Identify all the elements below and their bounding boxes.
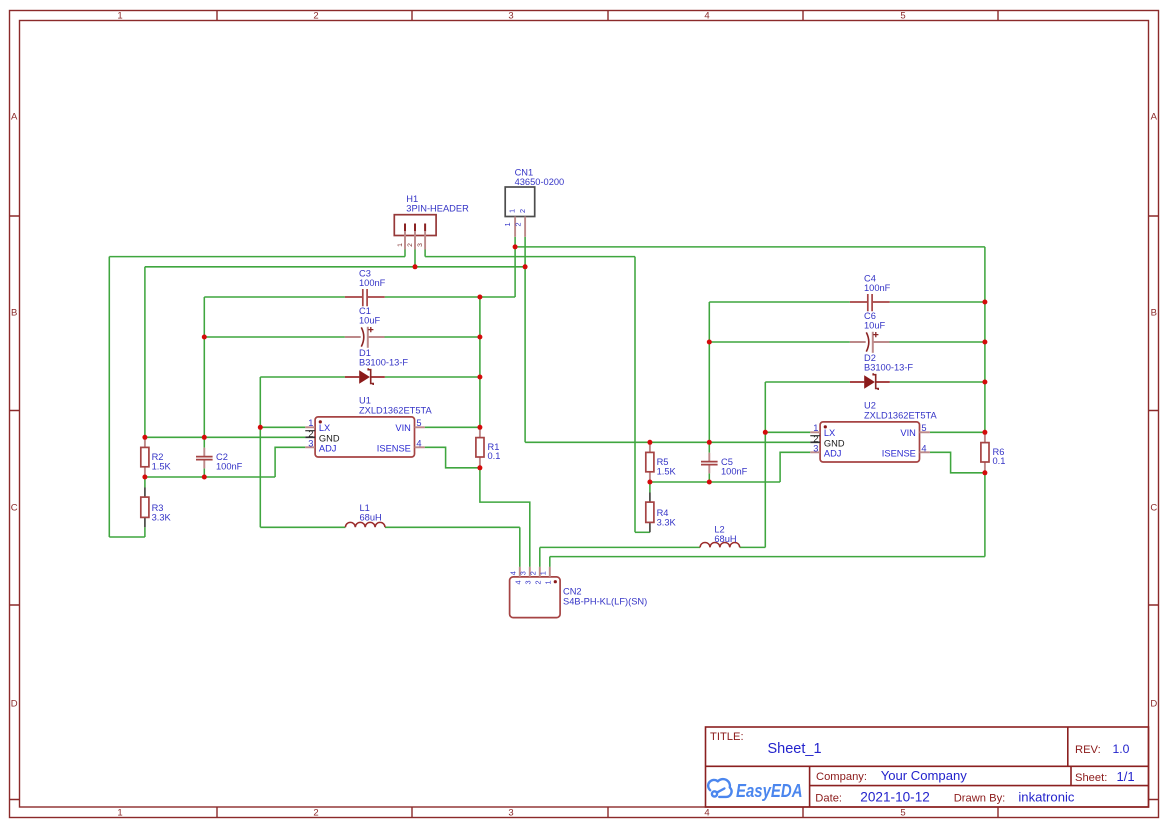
- svg-text:3: 3: [417, 243, 424, 247]
- junction D1 row R1 column: [477, 375, 482, 380]
- junction dots left half: [142, 244, 527, 479]
- svg-text:1: 1: [544, 580, 553, 584]
- svg-text:GND: GND: [824, 438, 845, 448]
- title block outline: [706, 727, 1149, 807]
- wire D1 row left: [260, 376, 345, 378]
- wire L2 row left: [540, 546, 700, 548]
- svg-text:U2: U2: [864, 401, 876, 411]
- svg-text:ISENSE: ISENSE: [882, 448, 916, 458]
- wire net B bottom to R3: [109, 536, 145, 538]
- U2 pin 4 line: [920, 451, 930, 453]
- frame row labels left: [11, 111, 18, 709]
- capacitor C2 plates: [196, 457, 213, 460]
- svg-text:3.3K: 3.3K: [152, 512, 172, 522]
- svg-text:C1: C1: [359, 306, 371, 316]
- wire LX right column: [764, 382, 766, 547]
- diode D1 cathode bar with schottky hooks: [368, 368, 373, 385]
- junction C4 row R6 column: [982, 300, 987, 305]
- op-amp U2 body: [820, 422, 919, 462]
- svg-text:D: D: [11, 698, 18, 709]
- svg-text:VIN: VIN: [395, 423, 411, 433]
- svg-text:100nF: 100nF: [721, 466, 748, 476]
- wire C2 column upper: [203, 297, 205, 448]
- svg-text:5: 5: [900, 11, 905, 22]
- frame row labels right: [1150, 111, 1157, 709]
- wire CN2 pin1 stub: [549, 557, 551, 567]
- wire VIN right to R6 top: [930, 431, 985, 433]
- junction LX right column pin1: [763, 430, 768, 435]
- svg-text:100nF: 100nF: [864, 283, 891, 293]
- svg-text:100nF: 100nF: [216, 461, 243, 471]
- title block logo cell divider: [809, 766, 811, 807]
- svg-text:10uF: 10uF: [359, 315, 381, 325]
- svg-text:B: B: [1151, 307, 1157, 318]
- wire CN1 pin1 vertical: [514, 237, 516, 297]
- U2 pin 1 line: [810, 431, 820, 433]
- svg-text:2: 2: [514, 222, 523, 226]
- capacitor C3 plates: [363, 289, 367, 306]
- junction VIN R6 top: [982, 430, 987, 435]
- junction R5 top: [647, 440, 652, 445]
- svg-text:Drawn By:: Drawn By:: [954, 792, 1006, 804]
- wire CN2 pin1 row: [550, 556, 985, 558]
- resistor R4 pin stubs: [649, 493, 651, 533]
- connector CN2 pin lines: [520, 567, 550, 577]
- resistor R1 pin stubs: [479, 427, 481, 468]
- svg-text:REV:: REV:: [1075, 744, 1101, 756]
- svg-text:ZXLD1362ET5TA: ZXLD1362ET5TA: [864, 411, 937, 421]
- svg-text:B3100-13-F: B3100-13-F: [864, 362, 913, 372]
- wire L2 row right: [740, 546, 766, 548]
- junction C2 bottom: [202, 475, 207, 480]
- wire C1 row left: [204, 336, 345, 338]
- svg-text:H1: H1: [406, 194, 418, 204]
- svg-text:Sheet:: Sheet:: [1075, 772, 1107, 784]
- svg-text:68uH: 68uH: [714, 534, 736, 544]
- wire C1 row right: [385, 336, 480, 338]
- capacitor C1 plus sign: [368, 327, 373, 332]
- svg-text:1: 1: [308, 418, 313, 428]
- U1 pin 2 overbar: [305, 430, 315, 432]
- svg-text:1.0: 1.0: [1113, 742, 1130, 756]
- U2 pin1 indicator dot: [824, 425, 827, 428]
- junction C2 top: [202, 435, 207, 440]
- U2 pin 2 overbar: [810, 435, 820, 437]
- wire C6 row left: [709, 341, 850, 343]
- junction C3 row R1 column: [477, 295, 482, 300]
- svg-text:C3: C3: [359, 268, 371, 278]
- wire C4 row left: [709, 301, 850, 303]
- wire D1 row right: [385, 376, 480, 378]
- svg-text:10uF: 10uF: [864, 320, 886, 330]
- capacitor C2 pin stubs: [203, 448, 205, 469]
- wire C5 column upper: [708, 302, 710, 453]
- op-amp U1 body: [315, 417, 414, 457]
- wire GND right row: [525, 441, 810, 443]
- junction D2 row R6 column: [982, 380, 987, 385]
- junction LX column pin1: [258, 425, 263, 430]
- junction ISENSE R6 bottom: [982, 470, 987, 475]
- U2 pin 3 line: [810, 451, 820, 453]
- svg-text:1: 1: [507, 209, 516, 213]
- junction R2 top: [142, 435, 147, 440]
- capacitor C6 leads: [850, 341, 890, 343]
- svg-text:1: 1: [117, 808, 122, 819]
- wire LX to U1 pin1: [260, 426, 305, 428]
- svg-text:VIN: VIN: [900, 428, 916, 438]
- U1 pin 5 line: [415, 426, 425, 428]
- wire ISENSE jog: [425, 447, 480, 468]
- wire C2 bottom link: [203, 468, 205, 477]
- connector CN1 pin lines: [515, 217, 525, 237]
- svg-text:3: 3: [508, 808, 513, 819]
- U2 pin 5 line: [920, 431, 930, 433]
- resistor R4 body: [646, 502, 654, 522]
- connector CN2 pin1 indicator dot: [554, 580, 557, 583]
- svg-text:inkatronic: inkatronic: [1018, 789, 1074, 804]
- wire R6 column: [984, 247, 986, 432]
- inductor L1 coil: [345, 522, 385, 527]
- connector CN2 body: [510, 577, 560, 618]
- wire H1 pin3 stub: [424, 250, 426, 257]
- U1 pin 2 line: [305, 436, 315, 438]
- svg-text:4: 4: [704, 11, 709, 22]
- svg-text:3: 3: [524, 580, 533, 584]
- capacitor C4 leads: [850, 301, 890, 303]
- svg-text:C4: C4: [864, 273, 876, 283]
- svg-text:3: 3: [813, 443, 818, 453]
- title block row divider 2: [810, 785, 1149, 787]
- resistor R1 body: [476, 438, 484, 457]
- resistor R3 body: [141, 497, 149, 517]
- svg-text:4: 4: [514, 580, 523, 584]
- wire net B left vertical: [108, 257, 110, 537]
- junction R2 bottom: [142, 475, 147, 480]
- capacitor C1 straight plate: [367, 327, 369, 348]
- wire C3 row left: [204, 296, 345, 298]
- wire L1 row left: [260, 526, 345, 528]
- svg-text:5: 5: [921, 423, 926, 433]
- svg-text:43650-0200: 43650-0200: [515, 177, 565, 187]
- resistor R5 pin stubs: [649, 442, 651, 482]
- svg-text:1: 1: [813, 423, 818, 433]
- wire R6 bottom column: [984, 473, 986, 557]
- svg-text:4: 4: [416, 438, 421, 448]
- wire H1 pin1 stub: [404, 250, 406, 257]
- wire C6 row right: [890, 341, 985, 343]
- svg-text:B3100-13-F: B3100-13-F: [359, 357, 408, 367]
- svg-text:ADJ: ADJ: [319, 443, 337, 453]
- diode D1 leads: [345, 376, 385, 378]
- wire net A horizontal: [515, 246, 985, 248]
- diode D1 triangle: [359, 370, 370, 384]
- svg-text:D1: D1: [359, 348, 371, 358]
- junction C5 top: [707, 440, 712, 445]
- svg-text:2: 2: [518, 209, 527, 213]
- capacitor C5 pin stubs: [708, 453, 710, 474]
- frame bottom ticks: [217, 807, 998, 818]
- U1 pin1 indicator dot: [319, 420, 322, 423]
- junction R5 bottom: [647, 480, 652, 485]
- junction C5 bottom: [707, 480, 712, 485]
- svg-text:1.5K: 1.5K: [657, 466, 677, 476]
- resistor R6 body: [981, 443, 989, 462]
- wire CN1 pin1 to C3 row: [385, 296, 515, 298]
- wire L1 to CN2 pin4: [519, 527, 521, 567]
- svg-text:3: 3: [508, 11, 513, 22]
- junction C1 row left: [202, 335, 207, 340]
- svg-text:ISENSE: ISENSE: [377, 443, 411, 453]
- frame top ticks: [217, 11, 998, 21]
- svg-text:L2: L2: [714, 524, 724, 534]
- svg-text:D: D: [1150, 698, 1157, 709]
- resistor R2 pin stubs: [144, 437, 146, 477]
- wire ADJ bottom row: [145, 476, 275, 478]
- capacitor C3 leads: [345, 296, 385, 298]
- capacitor C1 curved plate: [361, 327, 364, 346]
- header H1 inner pin stubs: [405, 224, 425, 232]
- svg-text:Company:: Company:: [816, 771, 867, 783]
- wire CN1 pin2 vertical: [524, 237, 526, 442]
- svg-text:68uH: 68uH: [360, 512, 382, 522]
- svg-text:3.3K: 3.3K: [657, 517, 677, 527]
- frame left ticks: [10, 216, 20, 800]
- header H1 body: [394, 215, 436, 236]
- svg-text:4: 4: [921, 443, 926, 453]
- svg-text:0.1: 0.1: [488, 451, 501, 461]
- capacitor C6 straight plate: [872, 332, 874, 353]
- wire net B right horizontal: [425, 256, 635, 258]
- svg-text:4: 4: [704, 808, 709, 819]
- header H1 pin lines: [405, 231, 425, 249]
- wire net B to R4 bottom: [635, 531, 650, 533]
- svg-text:1: 1: [538, 571, 547, 575]
- wire ISENSE right jog: [930, 452, 985, 473]
- svg-text:1: 1: [503, 222, 512, 226]
- svg-text:1.5K: 1.5K: [152, 461, 172, 471]
- EasyEDA logo cloud: [708, 779, 731, 797]
- wire ADJ jog: [275, 447, 305, 477]
- svg-text:ZXLD1362ET5TA: ZXLD1362ET5TA: [359, 406, 432, 416]
- svg-text:2: 2: [313, 808, 318, 819]
- title block Sheet divider: [1070, 766, 1072, 785]
- wire R2 to R3 link: [144, 477, 146, 537]
- junction ISENSE R1 bottom: [477, 465, 482, 470]
- resistor R3 pin stubs: [144, 488, 146, 528]
- U1 pin 1 line: [305, 426, 315, 428]
- svg-text:LX: LX: [824, 428, 835, 438]
- svg-text:A: A: [11, 111, 18, 122]
- wire ADJ right bottom row: [650, 481, 780, 483]
- wire C5 bottom link: [708, 473, 710, 482]
- U2 pin 2 line: [810, 441, 820, 443]
- wire H1 pin2 stub: [414, 250, 416, 267]
- wire LX column: [259, 377, 261, 527]
- wire net C horizontal: [145, 266, 525, 268]
- junction VIN R1 top: [477, 425, 482, 430]
- svg-text:CN1: CN1: [515, 168, 534, 178]
- wire CN2 pin2 stub: [539, 547, 541, 567]
- diode D2 triangle: [864, 375, 875, 389]
- wire net B right vertical: [634, 257, 636, 533]
- junction CN1 pin1 net A: [513, 244, 518, 249]
- svg-text:ADJ: ADJ: [824, 448, 842, 458]
- title block REV divider: [1067, 727, 1069, 766]
- svg-text:2: 2: [534, 580, 543, 584]
- wire L1 row right: [385, 526, 520, 528]
- svg-text:4: 4: [508, 571, 517, 575]
- svg-text:C: C: [11, 502, 18, 513]
- junction dots right half: [647, 300, 987, 485]
- svg-text:LX: LX: [319, 423, 330, 433]
- U1 pin 4 line: [415, 446, 425, 448]
- wire R1 bottom to CN2 pin3: [480, 468, 530, 567]
- svg-text:C: C: [1150, 502, 1157, 513]
- svg-text:3: 3: [308, 438, 313, 448]
- title block row divider 1: [706, 765, 1149, 767]
- svg-text:1/1: 1/1: [1117, 769, 1135, 784]
- svg-text:1: 1: [397, 243, 404, 247]
- svg-text:TITLE:: TITLE:: [710, 731, 744, 743]
- svg-text:GND: GND: [319, 433, 340, 443]
- svg-text:5: 5: [900, 808, 905, 819]
- wire R5 to R4 link: [649, 482, 651, 493]
- svg-text:EasyEDA: EasyEDA: [736, 780, 803, 801]
- wire LX to U2 pin1: [765, 431, 810, 433]
- diode D2 cathode bar with schottky hooks: [873, 373, 878, 390]
- svg-text:A: A: [1151, 111, 1158, 122]
- frame column labels top: [117, 11, 905, 22]
- junction C6 row left: [707, 340, 712, 345]
- capacitor C6 plus sign: [873, 332, 878, 337]
- wire R1 column: [479, 297, 481, 427]
- svg-text:3PIN-HEADER: 3PIN-HEADER: [406, 204, 469, 214]
- capacitor C1 leads: [345, 336, 385, 338]
- resistor R2 body: [141, 447, 149, 466]
- svg-text:Date:: Date:: [815, 792, 842, 804]
- svg-text:Your Company: Your Company: [881, 768, 968, 783]
- frame right ticks: [1149, 216, 1159, 800]
- wire GND row: [145, 436, 305, 438]
- connector CN1 body: [505, 187, 535, 217]
- junction H1 pin2 net C: [413, 264, 418, 269]
- wire C4 row right: [890, 301, 985, 303]
- resistor R6 pin stubs: [984, 432, 986, 473]
- svg-text:S4B-PH-KL(LF)(SN): S4B-PH-KL(LF)(SN): [563, 596, 647, 606]
- frame column labels bottom: [117, 808, 905, 819]
- svg-text:5: 5: [416, 418, 421, 428]
- diode D2 leads: [850, 381, 890, 383]
- wire VIN to R1 top: [425, 426, 480, 428]
- capacitor C5 plates: [701, 462, 718, 465]
- svg-text:0.1: 0.1: [993, 456, 1006, 466]
- capacitor C6 curved plate: [866, 332, 869, 351]
- svg-text:U1: U1: [359, 396, 371, 406]
- svg-text:2: 2: [528, 571, 537, 575]
- svg-text:Sheet_1: Sheet_1: [768, 741, 822, 757]
- junction CN1 pin2 net C: [523, 264, 528, 269]
- inductor L2 coil: [700, 542, 740, 547]
- wire net B left horizontal: [109, 256, 405, 258]
- svg-text:3: 3: [518, 571, 527, 575]
- wire ADJ right jog: [780, 452, 810, 482]
- U1 pin 3 line: [305, 446, 315, 448]
- svg-text:2: 2: [313, 11, 318, 22]
- junction C6 row R6 column: [982, 340, 987, 345]
- wire D2 row right: [890, 381, 985, 383]
- svg-text:2: 2: [407, 243, 414, 247]
- svg-text:D2: D2: [864, 353, 876, 363]
- svg-text:CN2: CN2: [563, 587, 582, 597]
- wire R2 column upper: [144, 267, 146, 438]
- svg-text:B: B: [11, 307, 17, 318]
- wire D2 row left: [765, 381, 850, 383]
- resistor R5 body: [646, 452, 654, 471]
- svg-text:2021-10-12: 2021-10-12: [860, 789, 930, 804]
- capacitor C4 plates: [868, 294, 872, 311]
- junction C1 row R1 column: [477, 335, 482, 340]
- svg-text:C6: C6: [864, 311, 876, 321]
- svg-text:100nF: 100nF: [359, 278, 386, 288]
- svg-text:1: 1: [117, 11, 122, 22]
